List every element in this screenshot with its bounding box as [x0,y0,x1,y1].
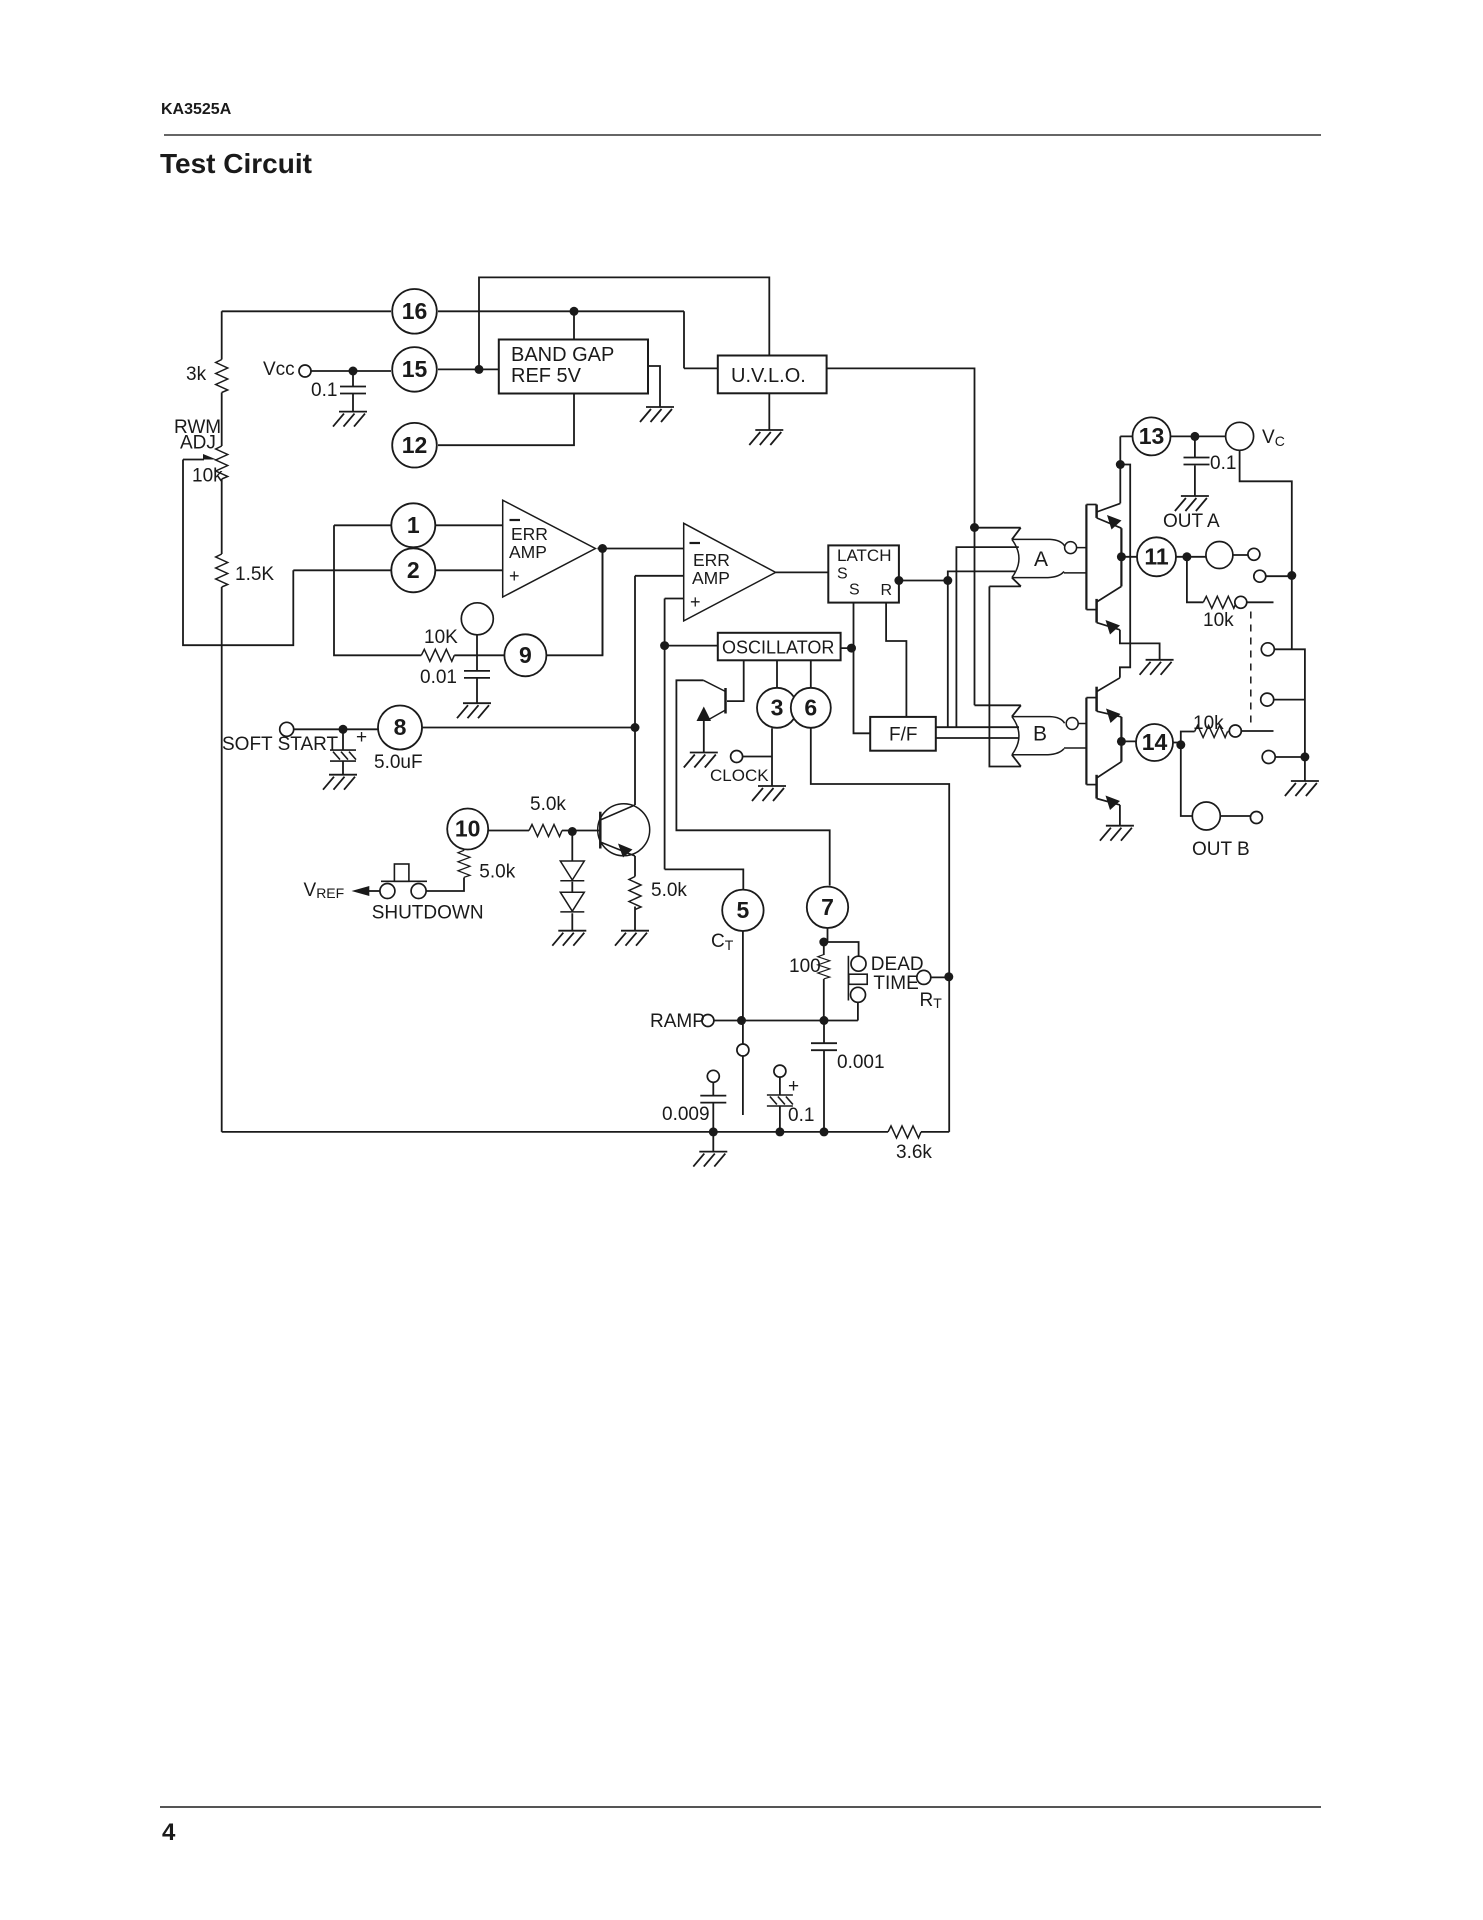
svg-text:ADJ: ADJ [180,433,216,454]
svg-text:ERR: ERR [693,550,730,570]
svg-text:5.0uF: 5.0uF [374,752,423,773]
svg-text:RAMP: RAMP [650,1011,705,1032]
svg-text:REF 5V: REF 5V [511,365,582,387]
svg-text:0.01: 0.01 [420,667,457,688]
svg-text:RT: RT [920,990,943,1011]
svg-text:ERR: ERR [511,524,548,544]
svg-text:11: 11 [1144,544,1169,570]
svg-text:AMP: AMP [692,568,730,588]
svg-text:0.009: 0.009 [662,1104,710,1125]
svg-text:OUT A: OUT A [1163,511,1220,532]
svg-text:5: 5 [737,897,750,923]
svg-text:7: 7 [821,894,834,920]
svg-text:S: S [837,566,848,583]
svg-text:14: 14 [1142,729,1168,755]
svg-text:0.1: 0.1 [1210,453,1236,474]
svg-text:10k: 10k [1203,610,1234,631]
svg-text:10K: 10K [424,627,458,648]
svg-text:3: 3 [771,695,784,721]
svg-text:3.6k: 3.6k [896,1142,932,1163]
svg-text:13: 13 [1139,423,1165,449]
svg-text:VC: VC [1262,427,1285,449]
svg-text:U.V.L.O.: U.V.L.O. [731,365,806,387]
svg-text:+: + [509,566,520,586]
svg-text:8: 8 [394,714,407,740]
svg-text:5.0k: 5.0k [479,862,515,883]
svg-text:F/F: F/F [889,725,918,746]
svg-text:+: + [788,1076,799,1097]
svg-text:10k: 10k [192,466,223,487]
svg-text:B: B [1033,723,1047,746]
svg-text:3k: 3k [186,364,207,385]
svg-text:10: 10 [455,816,481,842]
svg-text:1.5K: 1.5K [235,564,274,585]
svg-text:5.0k: 5.0k [651,880,687,901]
svg-text:CLOCK: CLOCK [710,766,769,785]
svg-text:12: 12 [402,432,428,458]
svg-text:SOFT START: SOFT START [222,734,339,755]
svg-text:DEAD: DEAD [871,954,924,975]
svg-text:0.1: 0.1 [311,380,337,401]
svg-text:BAND GAP: BAND GAP [511,344,614,366]
svg-text:TIME: TIME [873,973,918,994]
svg-text:AMP: AMP [509,542,547,562]
svg-text:9: 9 [519,642,532,668]
svg-text:6: 6 [804,695,817,721]
svg-text:Test Circuit: Test Circuit [160,148,312,179]
svg-text:+: + [690,592,701,612]
svg-text:S: S [849,582,860,599]
svg-text:VREF: VREF [304,880,345,901]
svg-text:16: 16 [402,298,428,324]
svg-text:R: R [881,582,893,599]
svg-text:+: + [356,727,367,748]
svg-text:CT: CT [711,931,734,953]
svg-text:0.1: 0.1 [788,1105,814,1126]
svg-text:4: 4 [162,1819,176,1846]
svg-text:1: 1 [407,512,420,538]
svg-text:5.0k: 5.0k [530,794,566,815]
svg-text:KA3525A: KA3525A [161,101,232,118]
svg-text:15: 15 [402,356,428,382]
svg-text:OUT B: OUT B [1192,839,1250,860]
svg-text:SHUTDOWN: SHUTDOWN [372,903,484,924]
svg-text:A: A [1034,548,1048,571]
svg-text:10k: 10k [1193,713,1224,734]
svg-text:LATCH: LATCH [837,546,891,565]
svg-text:0.001: 0.001 [837,1052,885,1073]
svg-text:Vcc: Vcc [263,359,295,380]
svg-text:OSCILLATOR: OSCILLATOR [722,638,834,658]
svg-text:2: 2 [407,557,420,583]
svg-text:100: 100 [789,956,821,977]
